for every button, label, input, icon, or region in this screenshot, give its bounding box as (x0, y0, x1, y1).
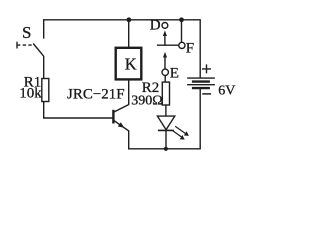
svg-text:6V: 6V (218, 84, 235, 99)
svg-text:10k: 10k (19, 85, 42, 101)
svg-text:D: D (150, 17, 161, 33)
svg-text:K: K (125, 55, 137, 74)
svg-text:JRC−21F: JRC−21F (67, 87, 125, 103)
svg-text:390Ω: 390Ω (131, 94, 162, 109)
svg-text:S: S (22, 23, 31, 42)
svg-text:F: F (186, 40, 194, 56)
svg-text:E: E (170, 66, 179, 82)
